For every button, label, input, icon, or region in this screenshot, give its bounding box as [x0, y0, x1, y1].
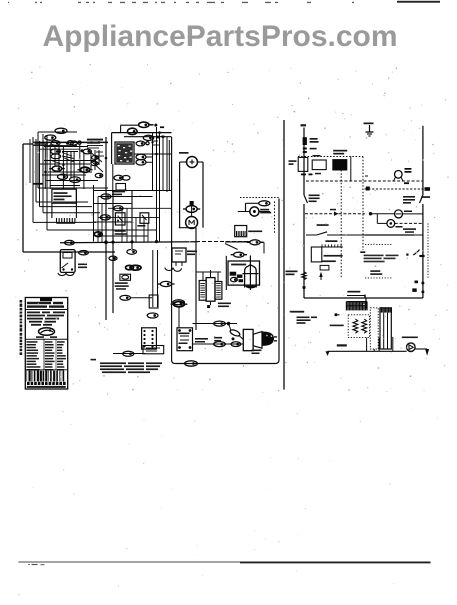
- svg-text:AppliancePartsPros.com: AppliancePartsPros.com: [42, 20, 397, 53]
